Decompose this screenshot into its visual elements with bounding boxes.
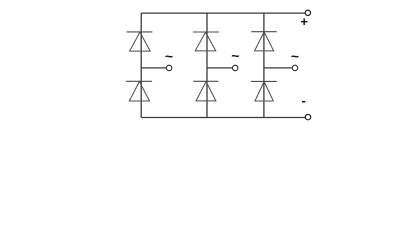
wire AC lead 2	[207, 67, 232, 69]
svg-text:~: ~	[291, 48, 299, 64]
diode D4 (leg1 bottom): cathode bar + triangle	[126, 81, 152, 101]
diode D1 (leg1 top): cathode bar + triangle	[127, 32, 153, 51]
node AC terminal 2	[232, 65, 238, 71]
node AC terminal 3	[292, 65, 298, 71]
node AC terminal 1	[166, 65, 172, 71]
node DC- terminal	[305, 114, 310, 119]
svg-text:~: ~	[231, 48, 239, 64]
wire AC lead 1	[141, 67, 166, 69]
svg-text:-: -	[302, 93, 306, 108]
wire bottom bus (-)	[141, 117, 305, 119]
svg-text:+: +	[300, 14, 308, 29]
wire AC lead 3	[264, 67, 292, 69]
diode D2 (leg2 top): cathode bar + triangle	[193, 32, 219, 51]
svg-text:~: ~	[165, 48, 173, 64]
diode D5 (leg2 bottom): cathode bar + triangle	[193, 81, 218, 101]
wire leg 3	[263, 13, 265, 117]
node DC+ terminal	[305, 10, 310, 15]
diode D3 (leg3 top): cathode bar + triangle	[251, 32, 276, 51]
wire leg 1	[140, 13, 142, 117]
wire leg 2	[206, 13, 208, 117]
wire top bus (+)	[141, 12, 305, 14]
diode D6 (leg3 bottom): cathode bar + triangle	[251, 81, 277, 101]
